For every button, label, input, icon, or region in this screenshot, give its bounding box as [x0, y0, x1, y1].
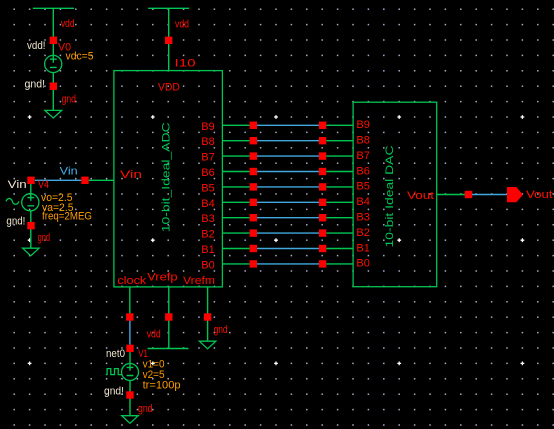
svg-text:B1: B1 [201, 244, 215, 256]
wire stub DAC B6 [326, 171, 353, 173]
wire stub DAC B5 [326, 186, 353, 188]
ground symbol below V4 [23, 248, 40, 256]
svg-text:B7: B7 [356, 150, 370, 162]
label gnd at V4 [38, 232, 51, 244]
svg-text:Vin: Vin [8, 179, 27, 191]
wire stub ADC B5 [222, 186, 249, 188]
svg-text:tr=100p: tr=100p [143, 379, 181, 391]
svg-text:Vout: Vout [526, 189, 553, 201]
pin label VDD [158, 82, 180, 94]
ground symbol below V1 [122, 416, 139, 424]
label gnd! net expression [25, 79, 46, 91]
label 10-bit Ideal DAC [384, 145, 396, 247]
svg-text:B5: B5 [201, 182, 215, 194]
pin square DAC B6 [319, 168, 326, 175]
pin label Vrefm [183, 275, 215, 287]
svg-text:10-bit_Ideal_ADC: 10-bit_Ideal_ADC [161, 122, 173, 232]
svg-text:B3: B3 [201, 213, 215, 225]
ADC pin label B6 [201, 167, 215, 179]
label V1 [138, 348, 148, 360]
DAC pin label B1 [356, 242, 370, 254]
label gnd at Vrefm [214, 324, 228, 336]
label net Vin (cyan) [60, 166, 78, 178]
wire vdd to V0 plus terminal [52, 36, 54, 56]
label Vin net expression (white) [8, 179, 27, 191]
vdd supply symbol above ADC [148, 8, 189, 36]
pin square DAC B8 [319, 137, 326, 144]
wire net Vin blue [35, 179, 82, 181]
svg-text:10-bit Ideal DAC: 10-bit Ideal DAC [384, 145, 396, 247]
svg-text:net0: net0 [106, 348, 125, 360]
wire stub clock pin [129, 287, 131, 313]
svg-text:gnd!: gnd! [25, 79, 46, 91]
label Vout at output pin [526, 189, 553, 201]
svg-text:B0: B0 [356, 258, 370, 270]
pin square clock [126, 313, 133, 320]
label gnd! at V4 [6, 216, 25, 228]
pin label clock [117, 275, 147, 287]
ADC pin label B0 [201, 259, 215, 271]
pin square DAC B5 [319, 183, 326, 190]
sine glyph of V4 [6, 199, 19, 205]
pin square V4 minus [27, 222, 34, 229]
value label tr=100p [143, 379, 181, 391]
svg-text:gnd: gnd [138, 403, 153, 415]
wire stub ADC B3 [222, 217, 249, 219]
svg-text:freq=2MEG: freq=2MEG [42, 211, 92, 223]
wire net B6 [257, 171, 319, 173]
svg-text:gnd: gnd [62, 93, 76, 105]
value label v1=0 [143, 359, 165, 371]
DAC pin label B6 [356, 165, 370, 177]
svg-text:Vin: Vin [60, 166, 78, 178]
wire stub ADC B1 [222, 248, 249, 250]
svg-text:vdd: vdd [61, 18, 75, 30]
ADC pin label B4 [201, 198, 215, 210]
pin label Vout of DAC [407, 190, 434, 202]
wire stub DAC B0 [326, 263, 353, 265]
op ADC instance I10 box [114, 71, 222, 287]
DAC pin label B2 [356, 227, 370, 239]
wire stub ADC B4 [222, 201, 249, 203]
pin square ADC B1 [250, 245, 257, 252]
pin square Vin wire to ADC [81, 177, 88, 184]
svg-text:Vrefm: Vrefm [183, 275, 215, 287]
svg-text:B5: B5 [356, 181, 370, 193]
label vdd at Vrefp [147, 329, 161, 341]
wire net B3 [257, 217, 319, 219]
pin square V1 minus [126, 391, 133, 398]
vdd supply symbol (vdd!) [33, 8, 74, 36]
label V4 [38, 179, 49, 191]
wire net B7 [257, 155, 319, 157]
value label freq=2MEG [42, 211, 92, 223]
wire stub Vrefp pin [168, 287, 170, 349]
ADC pin label B3 [201, 213, 215, 225]
pin square ADC VDD [165, 37, 172, 44]
ADC pin label B9 [201, 121, 215, 133]
voltage source V0 [45, 55, 62, 72]
ADC pin label B1 [201, 244, 215, 256]
pin square Vrefm [204, 313, 211, 320]
svg-text:V4: V4 [38, 179, 49, 191]
wire stub DAC B2 [326, 232, 353, 234]
wire V0 minus to gnd [52, 73, 54, 111]
value label vdc=5 [66, 51, 94, 63]
pin square ADC B8 [250, 137, 257, 144]
svg-text:B7: B7 [201, 152, 215, 164]
svg-text:B2: B2 [356, 227, 370, 239]
wire stub ADC B7 [222, 155, 249, 157]
wire stub ADC B0 [222, 263, 249, 265]
svg-text:gnd: gnd [214, 324, 228, 336]
svg-text:B8: B8 [356, 135, 370, 147]
svg-text:B3: B3 [356, 212, 370, 224]
label gnd (net gnd!) [62, 93, 76, 105]
pin label Vrefp [147, 271, 178, 283]
svg-text:Vrefp: Vrefp [147, 271, 178, 283]
pin square DAC B1 [319, 245, 326, 252]
pin square ADC B2 [250, 229, 257, 236]
pin square DAC B3 [319, 214, 326, 221]
pin square ADC B3 [250, 214, 257, 221]
vdd supply symbol at Vrefp (rotated) [148, 348, 189, 350]
label gnd at V1 [138, 403, 153, 415]
wire stub ADC B6 [222, 171, 249, 173]
svg-text:gnd!: gnd! [6, 216, 25, 228]
pin square ADC B0 [250, 260, 257, 267]
wire vdd to ADC VDD pin [168, 37, 170, 71]
ADC pin label B8 [201, 136, 215, 148]
pin square V4 plus [27, 177, 34, 184]
svg-text:I10: I10 [175, 58, 196, 70]
wire net B1 [257, 248, 319, 250]
label vdd (net vdd!) [61, 18, 75, 30]
svg-text:B0: B0 [201, 259, 215, 271]
wire stub DAC B4 [326, 201, 353, 203]
label 10-bit_Ideal_ADC [161, 122, 173, 232]
wire V4 minus to gnd [30, 211, 32, 248]
pin square ADC B9 [250, 122, 257, 129]
svg-text:VDD: VDD [158, 82, 180, 94]
wire stub ADC B9 [222, 124, 249, 126]
svg-text:clock: clock [117, 275, 147, 287]
pin label Vin of ADC [120, 169, 142, 181]
pin square ADC B5 [250, 183, 257, 190]
wire stub DAC B9 [326, 124, 353, 126]
ADC pin label B7 [201, 152, 215, 164]
svg-text:vdd: vdd [175, 19, 189, 31]
pin square DAC B7 [319, 152, 326, 159]
wire net B9 [257, 124, 319, 126]
svg-text:B1: B1 [356, 242, 370, 254]
DAC pin label B5 [356, 181, 370, 193]
svg-text:vdc=5: vdc=5 [66, 51, 94, 63]
pin square DAC B9 [319, 122, 326, 129]
pin square V1 plus [126, 345, 133, 352]
wire net B4 [257, 201, 319, 203]
wire stub Vin to ADC [89, 179, 114, 181]
voltage source V4 [22, 184, 39, 211]
pin square DAC B0 [319, 260, 326, 267]
DAC pin label B4 [356, 196, 370, 208]
ground symbol at Vrefm [199, 341, 216, 349]
DAC pin label B3 [356, 212, 370, 224]
pin junction square V0/gnd [50, 83, 57, 90]
wire stub Vrefm pin [207, 287, 209, 341]
DAC pin label B9 [356, 119, 370, 131]
svg-text:vdd!: vdd! [27, 40, 46, 52]
pin square ADC B6 [250, 168, 257, 175]
svg-text:B6: B6 [356, 165, 370, 177]
value label v2=5 [143, 369, 165, 381]
wire net net0 blue [129, 321, 131, 345]
label vdd! net expression [27, 40, 46, 52]
svg-text:vdd: vdd [147, 329, 161, 341]
wire stub DAC B3 [326, 217, 353, 219]
wire net B8 [257, 140, 319, 142]
DAC pin label B0 [356, 258, 370, 270]
output pin symbol Vout [507, 187, 523, 202]
svg-text:B2: B2 [201, 229, 215, 241]
instance name I10 [175, 58, 196, 70]
svg-text:Vout: Vout [407, 190, 434, 202]
wire stub DAC B1 [326, 248, 353, 250]
svg-text:B9: B9 [356, 119, 370, 131]
svg-text:Vin: Vin [120, 169, 142, 181]
svg-text:B8: B8 [201, 136, 215, 148]
svg-text:B6: B6 [201, 167, 215, 179]
ADC pin label B2 [201, 229, 215, 241]
wire stub ADC B8 [222, 140, 249, 142]
pin square DAC B4 [319, 199, 326, 206]
svg-text:gnd: gnd [38, 232, 51, 244]
pin square DAC B2 [319, 229, 326, 236]
wire stub DAC B8 [326, 140, 353, 142]
label gnd! at V1 [104, 386, 124, 398]
pin square ADC B7 [250, 152, 257, 159]
pin square ADC B4 [250, 199, 257, 206]
DAC pin label B8 [356, 135, 370, 147]
svg-text:B4: B4 [201, 198, 215, 210]
pulse glyph of V1 [106, 369, 122, 375]
wire net B5 [257, 186, 319, 188]
svg-text:B9: B9 [201, 121, 215, 133]
label V0 [58, 42, 71, 54]
wire stub ADC B2 [222, 232, 249, 234]
wire stub DAC Vout [437, 194, 465, 196]
voltage source V1 [122, 352, 139, 380]
pin square Vout [465, 191, 472, 198]
svg-text:B4: B4 [356, 196, 370, 208]
pin junction square vdd/V0 [50, 37, 57, 44]
wire stub DAC B7 [326, 155, 353, 157]
svg-text:gnd!: gnd! [104, 386, 124, 398]
DAC instance box [353, 102, 437, 287]
wire net Vout blue [472, 194, 508, 196]
wire net B2 [257, 232, 319, 234]
value label va=2.5 [42, 202, 74, 214]
label net0 [106, 348, 125, 360]
DAC pin label B7 [356, 150, 370, 162]
label vdd above ADC [175, 19, 189, 31]
wire V1 minus to gnd [129, 381, 131, 416]
value label vo=2.5 [41, 192, 73, 204]
wire net B0 [257, 263, 319, 265]
ADC pin label B5 [201, 182, 215, 194]
ground symbol below V0 [45, 110, 62, 118]
pin square Vrefp [165, 313, 172, 320]
